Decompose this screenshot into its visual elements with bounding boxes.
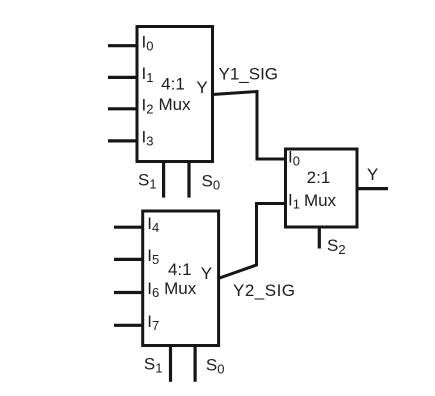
- svg-text:Y: Y: [196, 78, 207, 97]
- svg-text:Y: Y: [201, 264, 212, 283]
- wire select S0 stub U1: [187, 162, 190, 198]
- wire select S1 stub U1: [162, 162, 165, 198]
- wire input I1 stub U1: [108, 76, 139, 79]
- mux U2 4:1 box: [143, 211, 219, 346]
- wire input I0 stub U1: [108, 44, 139, 47]
- wire output Y of U3: [357, 187, 388, 190]
- svg-text:Y2_SIG: Y2_SIG: [233, 281, 296, 300]
- wire input I4 stub U2: [114, 226, 144, 229]
- svg-text:Y1_SIG: Y1_SIG: [219, 65, 279, 84]
- mux U1 4:1 box: [137, 27, 213, 162]
- wire input I3 stub U1: [108, 139, 139, 142]
- wire input I5 stub U2: [114, 258, 144, 261]
- svg-text:Mux: Mux: [158, 95, 191, 114]
- svg-text:Y: Y: [367, 165, 378, 184]
- wire input I7 stub U2: [114, 324, 144, 327]
- svg-text:Mux: Mux: [304, 191, 337, 210]
- wire input I2 stub U1: [108, 107, 139, 110]
- svg-text:4:1: 4:1: [161, 74, 185, 93]
- svg-text:Mux: Mux: [164, 279, 197, 298]
- wire input I6 stub U2: [114, 291, 144, 294]
- svg-text:2:1: 2:1: [307, 168, 331, 187]
- wire select S1 stub U2: [169, 346, 172, 382]
- wire Y1_SIG net from U1 Y to U3 I0: [213, 92, 287, 160]
- mux U3 2:1 box: [286, 149, 358, 227]
- wire select S0 stub U2: [194, 346, 197, 382]
- wire select S2 stub U3: [318, 227, 321, 249]
- wire Y2_SIG net from U2 Y to U3 I1: [220, 204, 287, 279]
- svg-text:4:1: 4:1: [168, 260, 192, 279]
